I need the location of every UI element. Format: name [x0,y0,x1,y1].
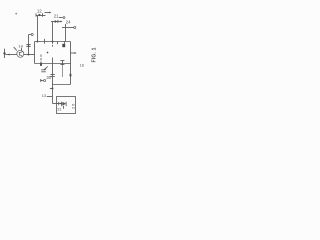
capacitor at bus end [60,61,64,65]
svg-text:21: 21 [54,14,59,19]
block outline bottom bus [35,63,71,65]
diode lead down [63,106,65,109]
junction blob on bus [40,63,42,66]
svg-text:30: 30 [46,75,51,80]
block outline top edge [35,41,71,43]
diode D1 [60,102,66,107]
svg-text:31: 31 [57,108,61,112]
wire into detector [53,103,62,105]
terminal arrow B [59,17,65,19]
trimmer capacitor plates [41,70,45,72]
wire below bus [40,55,42,67]
wire with output tap [62,26,76,28]
capacitor C2 [51,20,62,23]
tick on detector input [58,102,60,105]
capacitor C3 [26,45,30,47]
lead above transistor [21,48,23,51]
svg-text:13: 13 [42,94,46,98]
wire down from tap cross to block top [65,24,67,42]
svg-text:26: 26 [71,103,76,109]
block outline right edge [70,42,72,85]
wire terminal to mixer with left arrow [6,54,17,56]
component blob below top edge [62,44,65,47]
terminal tap top [29,34,34,36]
stub below junction [52,42,54,47]
stub left on mid wire [50,88,53,90]
stray speck [15,13,17,15]
output arrow right [71,52,77,54]
detector block outline [57,97,76,114]
wire down mid [52,58,54,104]
capacitor C4 plates [50,75,54,77]
wire up from mixer wire [28,35,30,55]
input terminal 10 [3,49,5,58]
transistor 14 circle [17,50,24,57]
svg-text:14: 14 [18,43,23,48]
wire from C1 down to block top [37,16,39,42]
flow arrow A [45,12,52,14]
wire from C2 down to block top [52,22,54,42]
blob on right edge [70,74,72,77]
leader line for 14 [14,47,17,50]
block outline left edge [34,42,36,64]
junction dot inside block [47,52,49,54]
tap terminal below [40,79,45,82]
junction mid wire [52,88,54,90]
svg-text:24: 24 [66,19,71,24]
bottom wire across [53,84,71,86]
stub below top edge [57,42,59,45]
wire mixer to block [24,54,35,56]
wire below bus cap [62,65,64,78]
trimmer arrow [44,66,48,70]
svg-text:FIG. 1: FIG. 1 [91,47,97,62]
capacitor C1 [36,13,46,17]
junction at block top mid [52,41,54,43]
leader for 13 [47,96,53,98]
junction at block top left-center [37,41,39,43]
svg-text:18: 18 [80,63,84,67]
svg-text:12: 12 [37,9,42,14]
junction on mixer wire [28,54,30,56]
stub inside top [44,39,46,44]
